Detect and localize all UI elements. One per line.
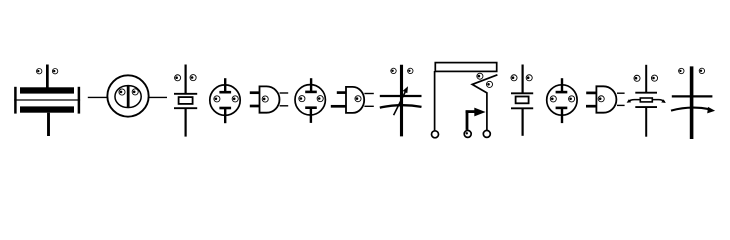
vacuum tube V4 (diode) [547, 78, 577, 123]
connector P1 (plug) [250, 86, 288, 112]
connector P2 (plug) [331, 87, 374, 113]
switch arm with arrow [466, 110, 469, 129]
vacuum tube V1 (dual diode, round envelope) [107, 75, 148, 116]
variable capacitor C4 (curved arrow) [671, 66, 715, 139]
terminal (sleeve) [432, 131, 439, 138]
vacuum tube V3 (diode) [295, 78, 325, 123]
jack J1 (phone jack with switch) [432, 63, 498, 138]
variable capacitor C2 [380, 65, 422, 137]
terminal (make contact, with dot) [464, 130, 471, 137]
switch contact (tip spring) [472, 75, 497, 130]
terminal (tip) [483, 130, 490, 137]
wire (left lead of V1) [88, 96, 108, 98]
capacitor C1 (feed-through trimmer) [14, 65, 80, 137]
connector P3 (plug) [586, 86, 625, 112]
wire (jack sleeve lead) [434, 71, 436, 130]
trimmer capacitor C3 (with adjustment arrows) [627, 65, 666, 137]
crystal Y2 [511, 65, 533, 136]
vacuum tube V2 (diode) [210, 78, 240, 123]
crystal Y1 [174, 65, 197, 137]
wire (right lead of V1) [148, 96, 167, 98]
